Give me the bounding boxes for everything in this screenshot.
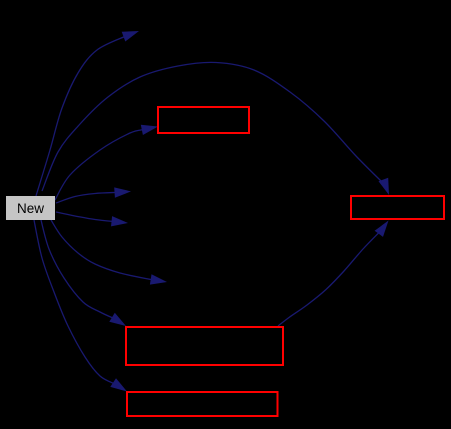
svg-text:New: New [17, 201, 44, 216]
edge New->node3 [56, 212, 128, 226]
box2 (right red node) [351, 196, 444, 219]
box3 (bottom-middle red node, two-line) [126, 327, 283, 365]
box4 (bottom red node) [127, 392, 278, 416]
edge box3->box2 [278, 221, 389, 327]
edge New->node2 [56, 187, 131, 203]
edge New->box4 [34, 220, 127, 392]
edge New->box3 [41, 220, 126, 326]
edge New->node4 [51, 220, 167, 285]
edge New->box2 (long arc) [42, 62, 389, 195]
edge New->node1 (top) [36, 31, 139, 196]
node New (grey filled) [6, 196, 55, 220]
edge New->box1 [55, 125, 158, 200]
box1 (top-middle red node) [158, 107, 249, 133]
